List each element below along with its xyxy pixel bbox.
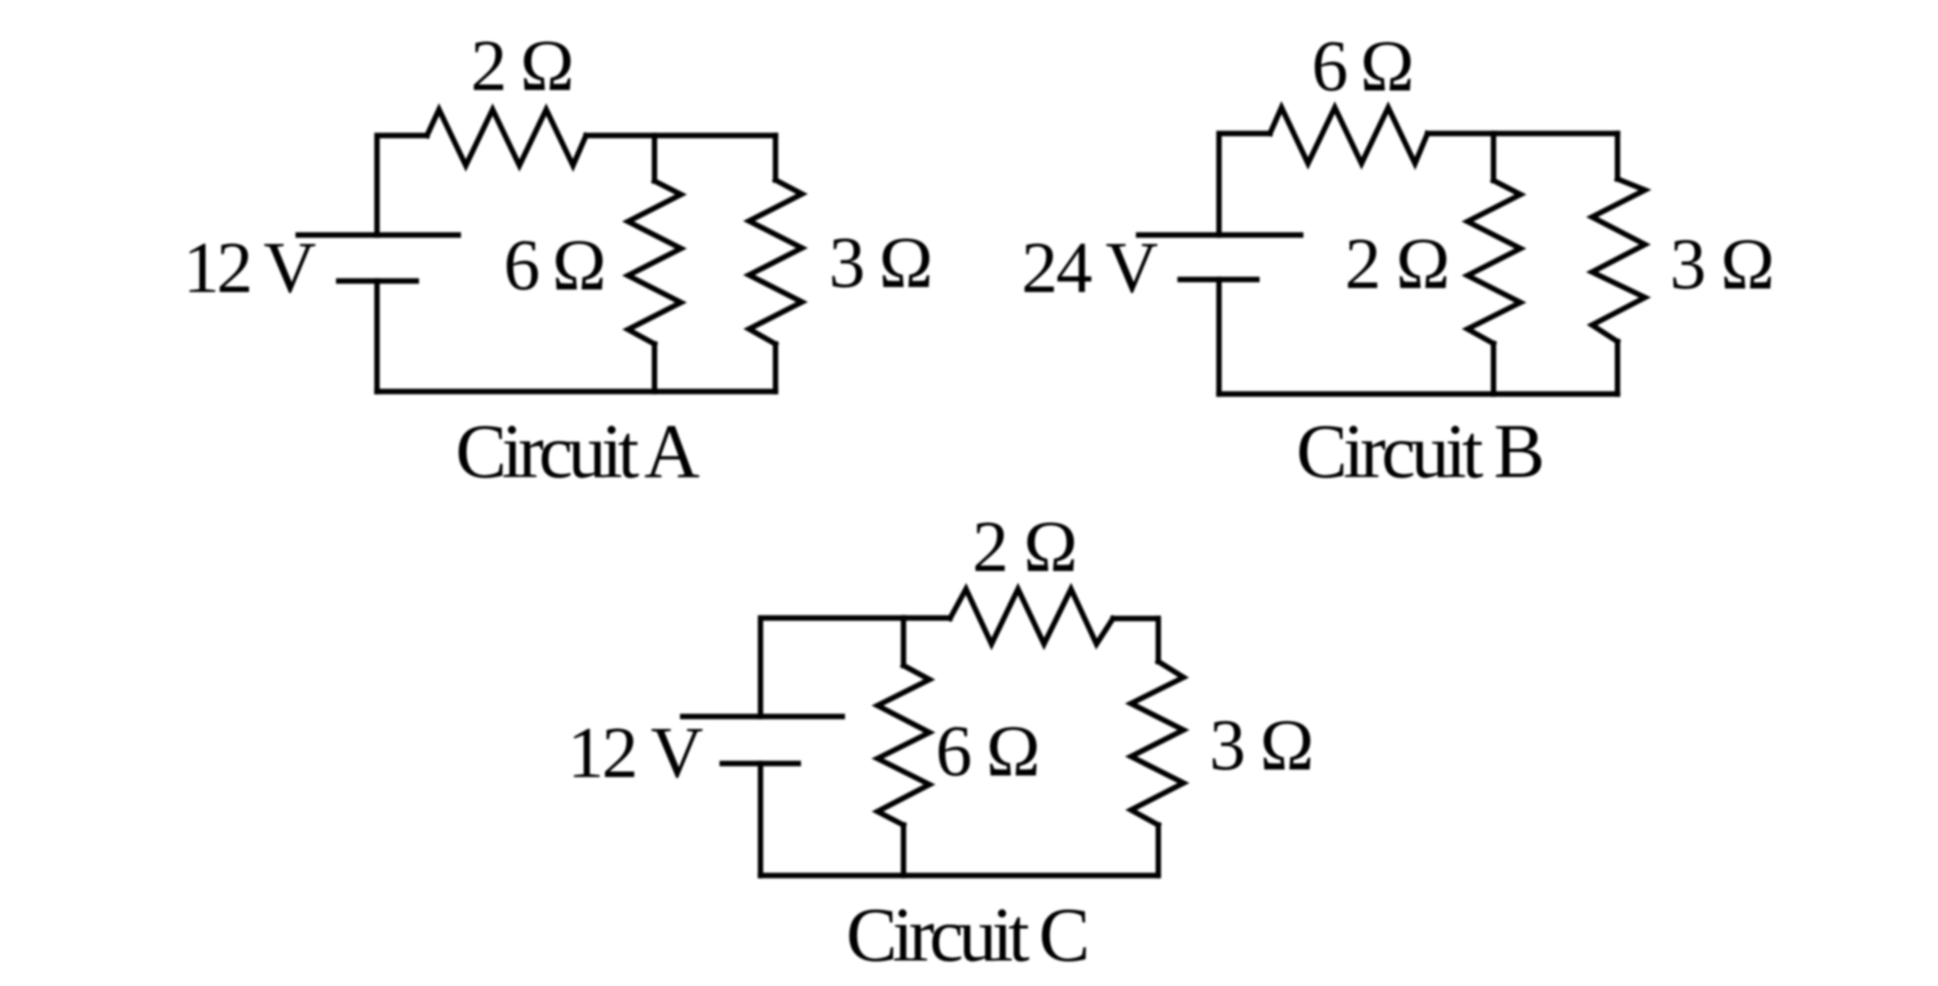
wire: bottom return (Circuit A) — [377, 389, 776, 394]
wire: R9 bottom lead (Circuit C) — [1156, 825, 1161, 876]
svg-text:12 V: 12 V — [568, 712, 704, 793]
svg-text:2 Ω: 2 Ω — [471, 25, 575, 106]
wire: R3 bottom lead (Circuit A) — [773, 344, 778, 392]
svg-text:Circuit B: Circuit B — [1296, 408, 1545, 494]
resistor R9 3 ohm vertical zigzag (Circuit C) — [1131, 662, 1184, 826]
battery V1 12 V (Circuit A) plates — [296, 235, 462, 281]
wire: R2 bottom lead (Circuit A) — [652, 344, 657, 392]
svg-text:3 Ω: 3 Ω — [1209, 705, 1314, 786]
wire: bottom return (Circuit B) — [1219, 391, 1618, 396]
battery V2 24 V (Circuit B) plates — [1136, 235, 1304, 280]
svg-text:3 Ω: 3 Ω — [829, 222, 933, 303]
svg-text:2 Ω: 2 Ω — [1345, 223, 1450, 304]
svg-text:Circuit C: Circuit C — [846, 892, 1090, 978]
wire: V1 positive terminal to top-left corner to R1 (Circuit A) — [377, 136, 427, 236]
wire: R8 top lead (Circuit C) — [901, 618, 906, 666]
resistor R2 6 ohm vertical zigzag (Circuit A) — [628, 181, 681, 344]
battery V3 12 V (Circuit C) plates — [680, 717, 845, 764]
wire: V2 positive terminal to top-left corner to R4 (Circuit B) — [1219, 134, 1270, 236]
resistor R1 2 ohm horizontal zigzag (Circuit A) — [427, 110, 586, 166]
resistor R5 2 ohm vertical zigzag (Circuit B) — [1468, 181, 1521, 344]
wire: bottom return (Circuit C) — [761, 873, 1159, 878]
resistor R4 6 ohm horizontal zigzag (Circuit B) — [1270, 108, 1428, 164]
wire: R7 right terminal to top-right corner (Circuit C) — [1113, 616, 1158, 621]
wire: R2 top lead (Circuit A) — [652, 136, 657, 182]
resistor R7 2 ohm horizontal zigzag (Circuit C) — [950, 589, 1113, 644]
wire: R8 bottom lead (Circuit C) — [901, 825, 906, 876]
wire: V1 negative terminal to bottom wire (Circuit A) — [374, 281, 379, 392]
wire: R6 top lead (Circuit B) — [1615, 134, 1620, 180]
wire: V3 positive terminal up and over to node with R8 (Circuit C) — [761, 618, 904, 717]
svg-text:24 V: 24 V — [1021, 227, 1158, 308]
wire: R5 bottom lead (Circuit B) — [1491, 344, 1496, 395]
wire: V2 negative terminal to bottom wire (Circuit B) — [1216, 280, 1221, 395]
svg-text:Circuit A: Circuit A — [455, 408, 700, 494]
svg-text:2 Ω: 2 Ω — [972, 506, 1078, 587]
wire: V3 negative terminal to bottom wire (Circuit C) — [758, 764, 763, 876]
resistor R8 6 ohm vertical zigzag (Circuit C) — [878, 666, 930, 826]
svg-text:12 V: 12 V — [183, 227, 316, 308]
svg-text:3 Ω: 3 Ω — [1670, 224, 1775, 305]
svg-text:6 Ω: 6 Ω — [504, 225, 607, 306]
svg-text:6 Ω: 6 Ω — [1312, 26, 1415, 107]
wire: top node from R4 to R5/R6 branches (Circuit B) — [1428, 131, 1618, 136]
wire: node to R7 left terminal (Circuit C) — [904, 615, 951, 620]
wire: R6 bottom lead (Circuit B) — [1615, 342, 1620, 395]
wire: R9 top lead (Circuit C) — [1156, 619, 1161, 662]
svg-text:6 Ω: 6 Ω — [936, 711, 1041, 792]
resistor R3 3 ohm vertical zigzag (Circuit A) — [749, 180, 802, 344]
wire: R5 top lead (Circuit B) — [1491, 134, 1496, 181]
wire: R3 top lead (Circuit A) — [773, 136, 778, 181]
resistor R6 3 ohm vertical zigzag (Circuit B) — [1592, 179, 1645, 342]
wire: top node from R1 to R2/R3 branches (Circuit A) — [586, 133, 776, 138]
